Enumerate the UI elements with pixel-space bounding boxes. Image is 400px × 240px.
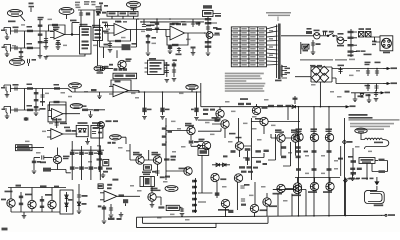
wire Q12 base	[198, 145, 202, 147]
label blobs mid buses	[150, 21, 155, 26]
cap C1FA	[338, 65, 345, 74]
grid resistors row2	[70, 166, 103, 169]
wire right mid	[268, 134, 276, 160]
power transformer T1 core bar	[277, 24, 281, 80]
wire y131 left	[198, 128, 221, 131]
op-amp U4	[109, 84, 139, 97]
emitter dark box	[43, 164, 58, 172]
speaker loop wire	[365, 186, 385, 204]
arrow down symbol	[375, 177, 379, 185]
labels top right	[362, 178, 374, 180]
chain x174	[172, 59, 177, 81]
label ELECTRICAL EXPORT POWER	[266, 12, 291, 21]
LR network box	[359, 158, 375, 164]
resistor R23	[205, 46, 212, 48]
transistor Q1	[206, 32, 219, 39]
emitter resistors row1	[296, 150, 332, 153]
label above S1	[80, 24, 88, 26]
bias network	[238, 98, 251, 105]
wire Q11 collector	[212, 124, 225, 138]
ground Q24	[150, 205, 155, 208]
bus junction dots	[298, 215, 347, 217]
transistor QO5	[308, 178, 319, 193]
cap C107	[374, 90, 379, 101]
wire box bottom	[366, 163, 368, 180]
table frame	[231, 27, 266, 67]
cap right of tank	[180, 207, 185, 216]
resistor grid top wire	[71, 149, 104, 151]
below U8 network	[98, 204, 113, 224]
voltage selector stack	[348, 29, 358, 57]
transistor Q27	[218, 199, 230, 210]
hanging R x196.5	[191, 92, 199, 120]
second line	[143, 222, 269, 224]
wire low row	[11, 47, 41, 49]
main spine x166	[165, 118, 167, 180]
resistor R32 divider	[34, 89, 39, 116]
label stack top right	[75, 1, 102, 10]
box around U3	[48, 105, 66, 122]
cap left edge	[101, 66, 114, 70]
junction dots rail	[367, 68, 378, 70]
feedback U4	[111, 80, 131, 91]
vertical x290	[283, 142, 291, 166]
capacitor C1	[13, 27, 19, 34]
cap on x237	[241, 199, 246, 206]
spine tick blobs	[162, 127, 172, 145]
label SPEAKER	[374, 142, 383, 144]
transistor Q5	[53, 148, 69, 164]
transistor Q29	[263, 198, 277, 207]
input network blobs	[203, 109, 215, 115]
diode pair row	[212, 163, 230, 166]
switch SW1	[327, 31, 337, 41]
T1 secondary winding bumps	[281, 65, 282, 77]
T1 secondary stubs	[282, 67, 291, 79]
vertical to PA row	[200, 83, 202, 107]
wire S1 bottom to gnd rail	[44, 54, 85, 59]
capacitor C10 drop	[142, 19, 151, 27]
wire top transistors	[273, 189, 306, 190]
resistor chain x353	[348, 148, 356, 176]
junction dot	[320, 106, 322, 108]
cap pair x42	[40, 89, 46, 110]
ground left	[101, 173, 106, 178]
transistor Q13	[229, 133, 244, 150]
transistor Q8	[152, 152, 162, 164]
op-amp U8	[100, 191, 124, 202]
output node diamond	[343, 140, 347, 144]
wire top feed	[78, 10, 102, 28]
cap at Q5 base	[40, 155, 53, 163]
cap under Q8	[152, 164, 165, 178]
jack J4	[2, 107, 11, 114]
capacitor C31	[15, 108, 17, 112]
wire to receptacle	[371, 37, 380, 42]
bus end mark	[382, 214, 395, 216]
PA input row continuation	[300, 106, 345, 108]
junction dot bus	[138, 91, 140, 93]
ground under out	[88, 111, 93, 118]
transistor Q31	[292, 185, 302, 196]
vertical x288	[287, 107, 289, 120]
components below U2A	[168, 45, 173, 54]
left edge vertical	[300, 42, 302, 54]
col junction dots	[298, 106, 330, 108]
resistor out U8	[119, 194, 141, 197]
emitter resistors row2	[296, 168, 332, 171]
op-amp U1B	[110, 24, 146, 36]
transistor Q26 top	[234, 174, 249, 186]
feedback loop U1A	[49, 25, 66, 35]
components on bus2 x170-186	[170, 23, 187, 25]
bridge rectifier BR1	[295, 66, 332, 82]
grid resistors row1	[70, 152, 103, 155]
relay drive cluster top	[75, 1, 102, 28]
wires table to transformer	[266, 26, 277, 65]
node REVERB oval	[186, 84, 198, 92]
top left parts	[99, 2, 108, 11]
transistor Q15	[275, 129, 285, 142]
diode pair below oval	[108, 142, 116, 144]
wire join vertical B	[24, 89, 26, 111]
node A OVERDRIVE oval	[59, 7, 74, 19]
driver labels col	[296, 128, 333, 132]
transistor Q11	[215, 118, 230, 128]
blobs extra driver	[223, 155, 267, 165]
output trans heading	[349, 114, 373, 119]
vertical spine x238.6	[238, 118, 240, 142]
jack J3	[1, 85, 11, 92]
resistor R30	[27, 84, 34, 90]
output column 1	[298, 107, 300, 216]
wire B high row	[11, 88, 69, 90]
notes text block	[225, 73, 265, 92]
resistor chain x157	[155, 19, 159, 33]
junction dot U3 out	[65, 113, 67, 115]
diode D10	[292, 105, 295, 108]
vertical x217	[216, 182, 218, 198]
feedback U1B	[108, 30, 131, 42]
wire left column	[201, 155, 203, 193]
node oval top mid	[127, 1, 141, 11]
wire up to stage2 feed	[72, 23, 80, 35]
transistor Q16	[291, 129, 300, 142]
transistor QO2	[310, 133, 318, 141]
label at node	[347, 141, 353, 143]
wire Q16 emitter	[295, 142, 297, 155]
ground under blobs	[119, 212, 124, 217]
jack J1 HIGH	[1, 28, 11, 35]
reverb transformer box	[140, 177, 154, 187]
thermal breaker CB1	[314, 30, 320, 39]
resistor R13 output	[146, 25, 166, 31]
transistor QO4	[293, 178, 301, 192]
wire -41 rail	[332, 78, 383, 84]
resistor chain x42	[40, 196, 44, 212]
feedback U3	[50, 102, 67, 114]
op-amp U3	[48, 109, 80, 119]
edge connector column	[192, 178, 196, 213]
feedback U2A	[167, 33, 188, 45]
hanging R x162.5	[160, 92, 169, 119]
cap blob	[240, 186, 244, 188]
resistor right of box	[375, 159, 388, 172]
jack J2 LOW	[2, 45, 11, 52]
AC receptacle P1	[380, 36, 393, 54]
resistor R4 pair low	[19, 48, 24, 59]
cap res blob on bus	[91, 89, 102, 99]
bias cluster bottom	[239, 166, 258, 173]
transistor Q10	[166, 167, 192, 175]
resistor R10 feedback	[115, 40, 121, 42]
bus ticks verticals	[226, 190, 307, 218]
transistor Q25 top	[211, 173, 227, 181]
small parts left of pot row	[97, 12, 107, 14]
transistor Q2B top-left	[98, 120, 118, 128]
node A VOLUME oval	[94, 66, 105, 74]
switch box S1	[80, 27, 92, 55]
thermal diode box	[60, 190, 73, 214]
ground jack3	[5, 92, 10, 97]
bridge down wire	[319, 82, 321, 107]
wire out to edge	[88, 109, 105, 111]
top wire	[8, 187, 66, 189]
wire Q15 Q16 bases	[268, 122, 300, 139]
bottom text line AC	[300, 59, 355, 61]
grid verticals	[72, 141, 100, 180]
parts right edge x190-200	[191, 47, 196, 56]
op-amp U1A	[50, 30, 80, 39]
transistor Q28	[250, 204, 267, 212]
wire Q15 emitter	[280, 142, 282, 155]
transistor Q22	[25, 188, 36, 209]
resistor row right	[268, 105, 291, 107]
caps -41	[365, 84, 371, 92]
resistor relay	[86, 12, 90, 15]
junction dot tank	[180, 207, 182, 209]
wire second bus y22	[141, 21, 204, 23]
transistor Q7	[133, 152, 144, 164]
label blobs top	[16, 185, 60, 188]
transistor Q23	[45, 188, 56, 209]
transistor QO1	[295, 133, 303, 141]
resistor R3 divider	[38, 17, 44, 58]
right chain x79	[77, 184, 88, 214]
emitter resistor Q9	[189, 140, 199, 143]
cap blobs right of oval	[28, 59, 37, 66]
small box left	[103, 159, 109, 165]
resistor chain x148	[146, 34, 156, 56]
wire y157 mid	[251, 153, 264, 158]
dark blob under	[228, 210, 233, 213]
RC box right	[91, 122, 103, 138]
side stubs	[208, 14, 221, 36]
resistor R34 on row	[54, 84, 61, 90]
top wire	[198, 119, 221, 121]
minus15 regulator cluster	[345, 91, 391, 103]
side blobs	[215, 15, 222, 30]
top small parts row	[29, 3, 35, 13]
node A SIGNAL INPUT oval	[7, 9, 25, 21]
corner page mark	[2, 228, 8, 231]
label above S2	[92, 25, 101, 27]
selector lower blobs	[348, 50, 372, 56]
diode relay	[96, 12, 99, 15]
label SPEAKER loop	[374, 204, 384, 206]
resistor above Q27	[215, 192, 220, 195]
wire main bus y19	[100, 18, 209, 20]
fan line labels	[269, 30, 273, 56]
label U1B	[115, 21, 121, 23]
junction dots bus	[137, 18, 171, 23]
node REVERB RETURN oval	[165, 186, 178, 192]
blobs before receptacle	[372, 41, 377, 46]
wire lower row y44	[100, 19, 122, 47]
wire top	[295, 177, 340, 179]
wire chain vertical	[207, 17, 209, 53]
resistor R22	[205, 41, 212, 43]
resistor R21	[205, 22, 212, 24]
node diamond top	[344, 178, 360, 183]
wire Q24 to tank	[152, 197, 161, 205]
wire high row	[11, 30, 54, 32]
hanging R x144.5	[142, 92, 151, 119]
input network U1B	[102, 22, 110, 33]
resistor R2	[27, 43, 34, 49]
label U1A	[53, 27, 60, 31]
resistor R1	[27, 26, 34, 32]
op-amp U2A	[170, 26, 205, 40]
op-amp U2B	[47, 129, 78, 140]
pot box row	[107, 11, 138, 16]
extra driver wires	[198, 122, 296, 194]
arrow -41	[383, 82, 397, 84]
blobs bottom mid	[165, 176, 170, 178]
resistor R20	[205, 18, 212, 20]
opto box between	[142, 165, 151, 175]
node CHANNEL oval	[110, 135, 126, 145]
ground jack4	[5, 114, 10, 119]
junction dot U2A out	[204, 32, 206, 34]
wire emitter to right	[58, 170, 71, 173]
node B VOLUME oval	[69, 83, 82, 92]
arrow end PA row	[345, 105, 356, 107]
capacitor line filter	[320, 31, 328, 36]
CB left box	[302, 44, 309, 51]
resistor pair below LR box	[350, 168, 362, 170]
wide bias box	[113, 73, 137, 79]
left cluster cap to gnd	[304, 40, 321, 55]
transistor Q30	[273, 184, 286, 194]
capacitor relay	[79, 13, 83, 15]
parts above U8	[107, 179, 118, 190]
transistor Q2	[118, 58, 132, 68]
wire pots to bus	[112, 16, 134, 19]
channel B bus	[68, 89, 201, 93]
resistor chain x21	[19, 192, 23, 212]
grid labels row2	[75, 167, 97, 169]
footswitch conn box	[198, 149, 209, 156]
resistor blobs cluster	[231, 146, 301, 158]
master vol dark pot	[122, 19, 137, 50]
grid labels row1	[75, 152, 97, 154]
feedback parts above	[66, 130, 77, 132]
wire Q7 Q8 bases	[130, 144, 153, 160]
transistor Q24	[148, 187, 161, 202]
table cell text	[233, 28, 265, 65]
blobs left	[104, 64, 113, 68]
blobs under box	[103, 168, 112, 173]
transistor Q21	[1, 188, 15, 208]
tank label blob	[158, 206, 164, 208]
output column 3	[328, 107, 330, 216]
chain x247 vertical	[245, 151, 249, 165]
transistor QO6	[323, 178, 334, 193]
wire S2 down to A VOLUME	[97, 41, 99, 66]
scattered value labels	[12, 19, 372, 221]
resistor lower right	[372, 163, 385, 173]
capacitor C14 below	[176, 47, 182, 55]
output column 2	[313, 107, 315, 216]
resistor pair out B	[82, 105, 100, 111]
transistor Q12	[199, 139, 211, 150]
ground below	[350, 174, 355, 181]
reverb pot dark	[123, 199, 128, 206]
bottom left resistor	[24, 117, 29, 121]
resistor chain x34	[32, 158, 41, 174]
transistor Q4	[252, 104, 267, 115]
ground jack1	[5, 35, 10, 40]
box reverb in	[203, 5, 214, 16]
ground chain	[206, 53, 211, 56]
wire PA input row	[201, 106, 300, 108]
label U4	[115, 81, 121, 83]
IC box U5	[145, 58, 168, 75]
chain into U6	[52, 118, 62, 128]
wire into opamp2	[166, 30, 170, 37]
node B SIGNAL INPUT oval	[9, 59, 24, 66]
wire mains from T1	[281, 35, 306, 37]
long vertical to bus	[344, 178, 346, 216]
arrow +41	[383, 67, 397, 69]
label INPUT	[8, 21, 16, 23]
ground between boxes	[85, 138, 90, 144]
resistor row under Q2	[114, 68, 128, 71]
transistor Q14 top-right	[255, 117, 268, 125]
cap res pair x189-201	[191, 19, 201, 27]
resistor R5 feedback	[52, 24, 58, 26]
spine junction dots	[165, 125, 167, 143]
left edge chain	[97, 128, 103, 172]
left verticals	[137, 217, 143, 227]
label under T1	[275, 80, 282, 82]
bottom-left blobs	[108, 218, 122, 220]
label above bridge	[310, 65, 322, 67]
wire join vertical	[24, 31, 26, 48]
bus junction dots	[144, 91, 198, 93]
verticals down to chB	[104, 47, 118, 58]
interlock TD1	[306, 28, 314, 36]
blobs above U1B	[117, 21, 127, 23]
third line	[138, 227, 216, 229]
components below U1B	[104, 41, 113, 52]
output node vertical	[344, 118, 346, 216]
label U2B	[60, 123, 70, 129]
cap left of LR box	[338, 146, 343, 176]
mid verticals	[216, 217, 268, 228]
wire B low row	[11, 109, 41, 111]
